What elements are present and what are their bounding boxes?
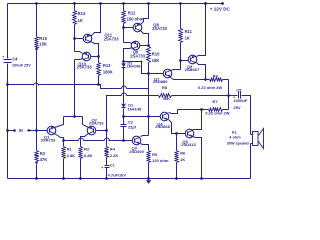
wire bottom rail: [8, 178, 251, 180]
wire Q6 emitter: [124, 43, 133, 44]
resistor R5: [147, 151, 169, 181]
svg-text:R12: R12: [128, 10, 136, 15]
node rail R2: [79, 177, 82, 180]
arrow R15 wiper: [35, 47, 39, 50]
node W1 R13: [97, 83, 100, 86]
wire W2 corner: [107, 96, 122, 131]
transistor Q5: [181, 129, 196, 147]
node top rail Q11E: [99, 2, 102, 5]
wire C1 to rail: [105, 168, 108, 180]
svg-text:150 ohm: 150 ohm: [127, 16, 144, 21]
transistor Q4: [155, 112, 170, 129]
svg-text:R13: R13: [103, 63, 111, 68]
svg-text:30W speaker: 30W speaker: [227, 142, 250, 146]
svg-text:2SA733: 2SA733: [130, 54, 146, 59]
resistor R4: [105, 147, 119, 166]
node top rail 12V: [204, 2, 207, 5]
wire Q4 collector: [169, 110, 178, 114]
wire R11 to Q7C: [180, 43, 182, 70]
node Q10 base junction: [97, 55, 100, 58]
hop W2 over bias chain: [122, 93, 127, 96]
transistor Q10: [77, 52, 93, 69]
resistor R7: [205, 99, 229, 116]
wire R9 output drop: [228, 80, 230, 110]
wire Q9 emitter to rail: [197, 4, 206, 57]
svg-text:2SA733: 2SA733: [104, 36, 120, 41]
svg-text:180K: 180K: [103, 70, 113, 75]
svg-text:2SA733: 2SA733: [77, 64, 93, 69]
resistor R9: [198, 73, 229, 90]
wire W2 to R8: [127, 95, 159, 97]
svg-text:+: +: [2, 55, 4, 59]
svg-text:120 ohm: 120 ohm: [152, 158, 169, 163]
wire R13 to W1: [98, 76, 100, 85]
wire Q5 collector: [193, 110, 202, 130]
wire Q1 emitter leg: [55, 117, 64, 128]
svg-text:R6: R6: [180, 151, 186, 156]
transistor Q1: [41, 126, 56, 142]
wire Q3 collector: [141, 136, 149, 137]
wire IN to junction: [30, 130, 37, 132]
svg-text:6.8K: 6.8K: [84, 153, 93, 158]
wire output to C5: [229, 95, 238, 97]
hop W1 over bias chain: [122, 86, 127, 89]
wire Q2 emitter leg: [83, 117, 89, 128]
node left rail IN tap: [6, 129, 9, 132]
node Q4 base line cross: [147, 115, 150, 118]
svg-text:6.8K: 6.8K: [67, 153, 76, 158]
wire Q7 emitter: [171, 78, 206, 80]
wire D2 to D1: [123, 68, 125, 104]
node top rail R14: [73, 2, 76, 5]
svg-text:R11: R11: [185, 29, 193, 34]
svg-text:R9: R9: [213, 73, 219, 78]
svg-text:1N4148: 1N4148: [127, 63, 142, 68]
transistor Q11: [83, 33, 119, 43]
svg-text:2SA733: 2SA733: [89, 120, 104, 125]
svg-text:2SD313: 2SD313: [181, 142, 196, 147]
node top rail Q8E: [147, 2, 150, 5]
svg-text:C5: C5: [236, 87, 242, 92]
wire Q5 emitter: [193, 137, 202, 179]
svg-text:R1: R1: [67, 147, 73, 152]
svg-text:22pf: 22pf: [128, 124, 137, 129]
svg-text:R5: R5: [152, 152, 158, 157]
node Q4 base tap: [122, 115, 125, 118]
wire R8 to output node: [172, 95, 229, 97]
wire tail to emitter bridge: [74, 60, 76, 117]
wire D1 to C2 node: [123, 109, 125, 125]
svg-text:25V: 25V: [233, 105, 241, 110]
capacitor C4: [2, 55, 31, 68]
node R9 left: [204, 78, 207, 81]
resistor R10: [147, 47, 161, 63]
svg-text:2SD400: 2SD400: [129, 149, 144, 154]
node top rail R12: [122, 2, 125, 5]
node Q6 base junction: [147, 44, 150, 47]
wire Q11 base: [75, 38, 83, 40]
resistor R15: [35, 36, 48, 49]
node Q8 base: [122, 24, 125, 43]
node Q9 base: [179, 59, 182, 62]
node Q6C-wire: [141, 61, 143, 63]
transistor Q9: [185, 55, 200, 72]
transistor Q6: [130, 41, 146, 58]
wire Q9 collector: [197, 63, 206, 80]
node rail R1: [62, 177, 65, 180]
node Q11 base: [73, 37, 76, 40]
wire Q3 emitter: [141, 144, 149, 151]
resistor R6: [175, 134, 187, 179]
wire Q10 lower lead: [75, 59, 83, 60]
wire left rail lower (C4 to bottom): [7, 64, 9, 179]
speaker K1: [227, 129, 264, 149]
wire Q8 base: [124, 27, 134, 29]
wire to Q3 base: [109, 140, 133, 142]
transistor Q3: [129, 136, 144, 154]
wire W1 right: [127, 88, 149, 90]
svg-text:100uF 25V: 100uF 25V: [12, 64, 31, 68]
svg-text:18K: 18K: [152, 58, 160, 63]
resistor R8: [159, 85, 172, 101]
node Q7 base cross: [147, 72, 150, 75]
wire R15 top: [36, 4, 38, 37]
capacitor C5: [233, 87, 248, 110]
resistor R11: [179, 4, 193, 43]
wire Q6 base: [140, 45, 149, 47]
wire Q10 base: [91, 56, 99, 58]
terminal IN left: [13, 129, 16, 132]
resistor R12: [122, 4, 144, 24]
wire Q2 collector: [81, 134, 89, 142]
svg-text:0.22 ohm 2W: 0.22 ohm 2W: [198, 85, 222, 90]
hop W1 over x36: [34, 83, 39, 86]
wire Q4 emitter: [169, 120, 186, 134]
node Q3 base: [122, 139, 125, 142]
resistor R14: [73, 4, 86, 25]
svg-text:2SD868: 2SD868: [155, 124, 170, 129]
wire D2 node to Q7 base: [124, 62, 164, 74]
wire C2 to Q3 base node: [123, 127, 125, 141]
svg-text:C1: C1: [110, 163, 116, 168]
svg-text:2SA733: 2SA733: [152, 26, 168, 31]
terminal IN right: [27, 129, 30, 132]
wire Q11 emitter to rail: [91, 4, 101, 37]
wire Q1C to R2 hop: [64, 140, 79, 142]
node R1 top: [62, 139, 65, 142]
wire Q9 base: [181, 60, 189, 62]
svg-text:R4: R4: [110, 147, 116, 152]
node emitter bridge: [73, 115, 76, 118]
node D2 top: [122, 60, 125, 63]
svg-text:30K: 30K: [163, 96, 171, 101]
wire R15 to IN: [36, 50, 38, 131]
wire left rail upper (to C4): [7, 4, 9, 59]
resistor R1: [62, 141, 76, 179]
wire C5 to speaker: [242, 96, 251, 135]
wire Q2 base: [97, 130, 107, 132]
wire Q2 base to R4: [106, 131, 108, 147]
wire R14 to Q11 base node: [74, 25, 76, 52]
diode D1: [121, 103, 142, 112]
svg-text:4 ohm: 4 ohm: [229, 135, 241, 139]
wire Q10 upper lead: [75, 52, 83, 54]
svg-text:2.2K: 2.2K: [110, 153, 119, 158]
node top rail R11: [179, 2, 182, 5]
transistor Q7: [153, 69, 172, 84]
svg-text:+ 12V DC: + 12V DC: [210, 7, 231, 12]
node Q2 base: [105, 129, 108, 132]
svg-text:R2: R2: [84, 147, 90, 152]
svg-text:0.22 ohm 2W: 0.22 ohm 2W: [205, 111, 229, 116]
svg-text:47K: 47K: [40, 157, 48, 162]
svg-text:15K: 15K: [39, 42, 47, 47]
wire Q6 collector: [124, 48, 133, 64]
capacitor C2: [121, 120, 137, 130]
svg-text:1K: 1K: [78, 18, 83, 23]
wire Q1 collector: [55, 134, 64, 141]
label +12V DC: [210, 7, 231, 12]
wire Q11 collector down: [91, 42, 99, 63]
transistor Q8: [133, 23, 167, 32]
svg-text:1600uF: 1600uF: [233, 98, 247, 103]
wire R7 line: [178, 109, 209, 111]
svg-text:IN: IN: [19, 128, 23, 133]
diode D2: [121, 60, 141, 68]
wire speaker to rail: [250, 144, 252, 179]
wire W1 jog: [99, 85, 122, 89]
svg-text:R15: R15: [39, 36, 47, 41]
capacitor C1: [101, 163, 126, 178]
wire Q7 collector: [171, 70, 181, 71]
wire Q4 base: [124, 116, 161, 118]
wire emitter bridge: [64, 116, 83, 118]
transistor Q2: [87, 117, 104, 135]
svg-text:2SB667: 2SB667: [185, 67, 200, 72]
wire Q8 emitter: [141, 4, 149, 25]
wire +12V top rail: [8, 3, 223, 5]
svg-text:2SD880: 2SD880: [153, 79, 168, 84]
wire R10 bottom: [148, 63, 150, 136]
resistor R13: [97, 63, 113, 76]
wire to R4 hop: [84, 140, 105, 142]
wire IN junction to Q1 base: [37, 130, 48, 132]
node rail Q5E: [200, 177, 203, 180]
wire W1 mid: [39, 84, 99, 86]
node IN junction: [35, 129, 38, 132]
node left rail W1: [6, 83, 9, 86]
svg-text:R10: R10: [152, 51, 160, 56]
svg-text:K1: K1: [232, 130, 238, 134]
wire W1 left: [8, 84, 34, 86]
node R7 Q5C tap: [200, 108, 203, 111]
node rail R6: [175, 177, 178, 180]
resistor R3: [35, 131, 48, 163]
node Q5 base R6: [175, 132, 178, 135]
hop over R2: [79, 138, 84, 141]
svg-text:4.7uF/16V: 4.7uF/16V: [108, 173, 127, 178]
node rail ground: [147, 177, 150, 180]
svg-text:1K: 1K: [185, 36, 190, 41]
svg-text:2SA733: 2SA733: [41, 138, 56, 143]
hop over R4 column: [105, 138, 110, 141]
svg-text:R14: R14: [78, 11, 86, 16]
svg-text:C4: C4: [12, 56, 18, 61]
wire R3 to rail: [35, 165, 38, 180]
svg-text:R8: R8: [162, 85, 168, 90]
svg-text:1N4148: 1N4148: [127, 107, 142, 112]
svg-text:R7: R7: [212, 99, 218, 104]
svg-text:1K: 1K: [180, 157, 185, 162]
ground: [146, 180, 151, 184]
node top rail R15: [35, 2, 38, 5]
wire IN stub left: [8, 130, 14, 132]
label IN: [19, 128, 23, 133]
wire Q8 collector: [141, 31, 149, 47]
svg-text:R3: R3: [40, 151, 46, 156]
node output: [227, 94, 230, 97]
svg-text:+: +: [101, 166, 103, 170]
node top rail end: [221, 2, 224, 5]
arrow R3: [35, 162, 39, 165]
resistor R2: [79, 142, 93, 179]
